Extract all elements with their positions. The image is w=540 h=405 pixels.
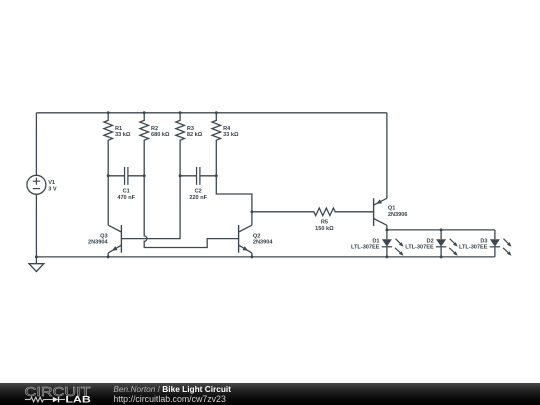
junction R4 top bbox=[215, 111, 218, 114]
CircuitLab logo LAB text bbox=[65, 395, 91, 405]
label R2 value bbox=[151, 126, 170, 138]
junction C2 left bbox=[179, 174, 182, 177]
resistor R5 bbox=[252, 208, 374, 216]
junction D2 cathode bbox=[440, 255, 443, 258]
label R1 value bbox=[115, 126, 131, 138]
ground bbox=[29, 257, 44, 272]
junction Q2 emitter bbox=[250, 255, 253, 258]
label Q2 part number bbox=[253, 233, 273, 245]
resistor R4 bbox=[212, 113, 221, 176]
label R4 value bbox=[223, 126, 239, 138]
junction C1 left bbox=[107, 174, 110, 177]
resistor R1 bbox=[104, 113, 113, 176]
LED D1 bbox=[382, 230, 404, 257]
wire bottom ground rail bbox=[36, 256, 495, 258]
capacitor C1 bbox=[108, 167, 144, 185]
label D1 part number bbox=[351, 238, 380, 250]
capacitor C2 bbox=[180, 167, 216, 185]
junction Q3 emitter bbox=[107, 255, 110, 258]
transistor Q2 bbox=[239, 212, 252, 257]
junction Q2 collector node bbox=[250, 210, 253, 213]
footer bar bbox=[0, 383, 540, 405]
label D3 part number bbox=[459, 238, 488, 250]
label Q3 part number bbox=[88, 233, 108, 245]
junction C2 right bbox=[215, 174, 218, 177]
wire R4 to collector node bbox=[216, 176, 252, 212]
wire top supply rail bbox=[36, 112, 387, 114]
junction C1 right bbox=[143, 174, 146, 177]
junction D1 cathode bbox=[385, 255, 388, 258]
junction R3 top bbox=[179, 111, 182, 114]
junction Q1 collector / D1 bbox=[385, 228, 388, 231]
transistor Q3 bbox=[108, 176, 121, 257]
LED D2 bbox=[436, 230, 458, 257]
label R5 value bbox=[315, 220, 334, 233]
resistor R2 bbox=[140, 113, 149, 176]
label D2 part number bbox=[405, 238, 434, 250]
label R3 value bbox=[187, 126, 203, 138]
transistor Q1 bbox=[374, 113, 387, 230]
svg-text:LAB: LAB bbox=[65, 395, 91, 405]
label V1 value bbox=[48, 180, 57, 193]
junction R1 top bbox=[107, 111, 110, 114]
label Q1 part number bbox=[388, 206, 408, 219]
LED D3 bbox=[490, 230, 512, 257]
wire R3 to Q3 base bbox=[121, 176, 180, 239]
junction D2 anode bbox=[440, 228, 443, 231]
wire R2 to Q2 base with hop over Q3 base wire bbox=[144, 176, 238, 248]
junction R2 top bbox=[143, 111, 146, 114]
wire LED anode rail bbox=[387, 229, 495, 231]
voltage source V1 bbox=[27, 113, 46, 257]
resistor R3 bbox=[176, 113, 185, 176]
footer url bbox=[113, 394, 225, 404]
junction V1-ground-rail bbox=[35, 255, 38, 258]
label C1 value bbox=[117, 189, 135, 202]
CircuitLab logo wordmark bbox=[25, 384, 91, 399]
CircuitLab logo resistor-diode motif bbox=[25, 397, 65, 403]
footer author / title bbox=[113, 384, 231, 394]
label C2 value bbox=[189, 189, 207, 202]
